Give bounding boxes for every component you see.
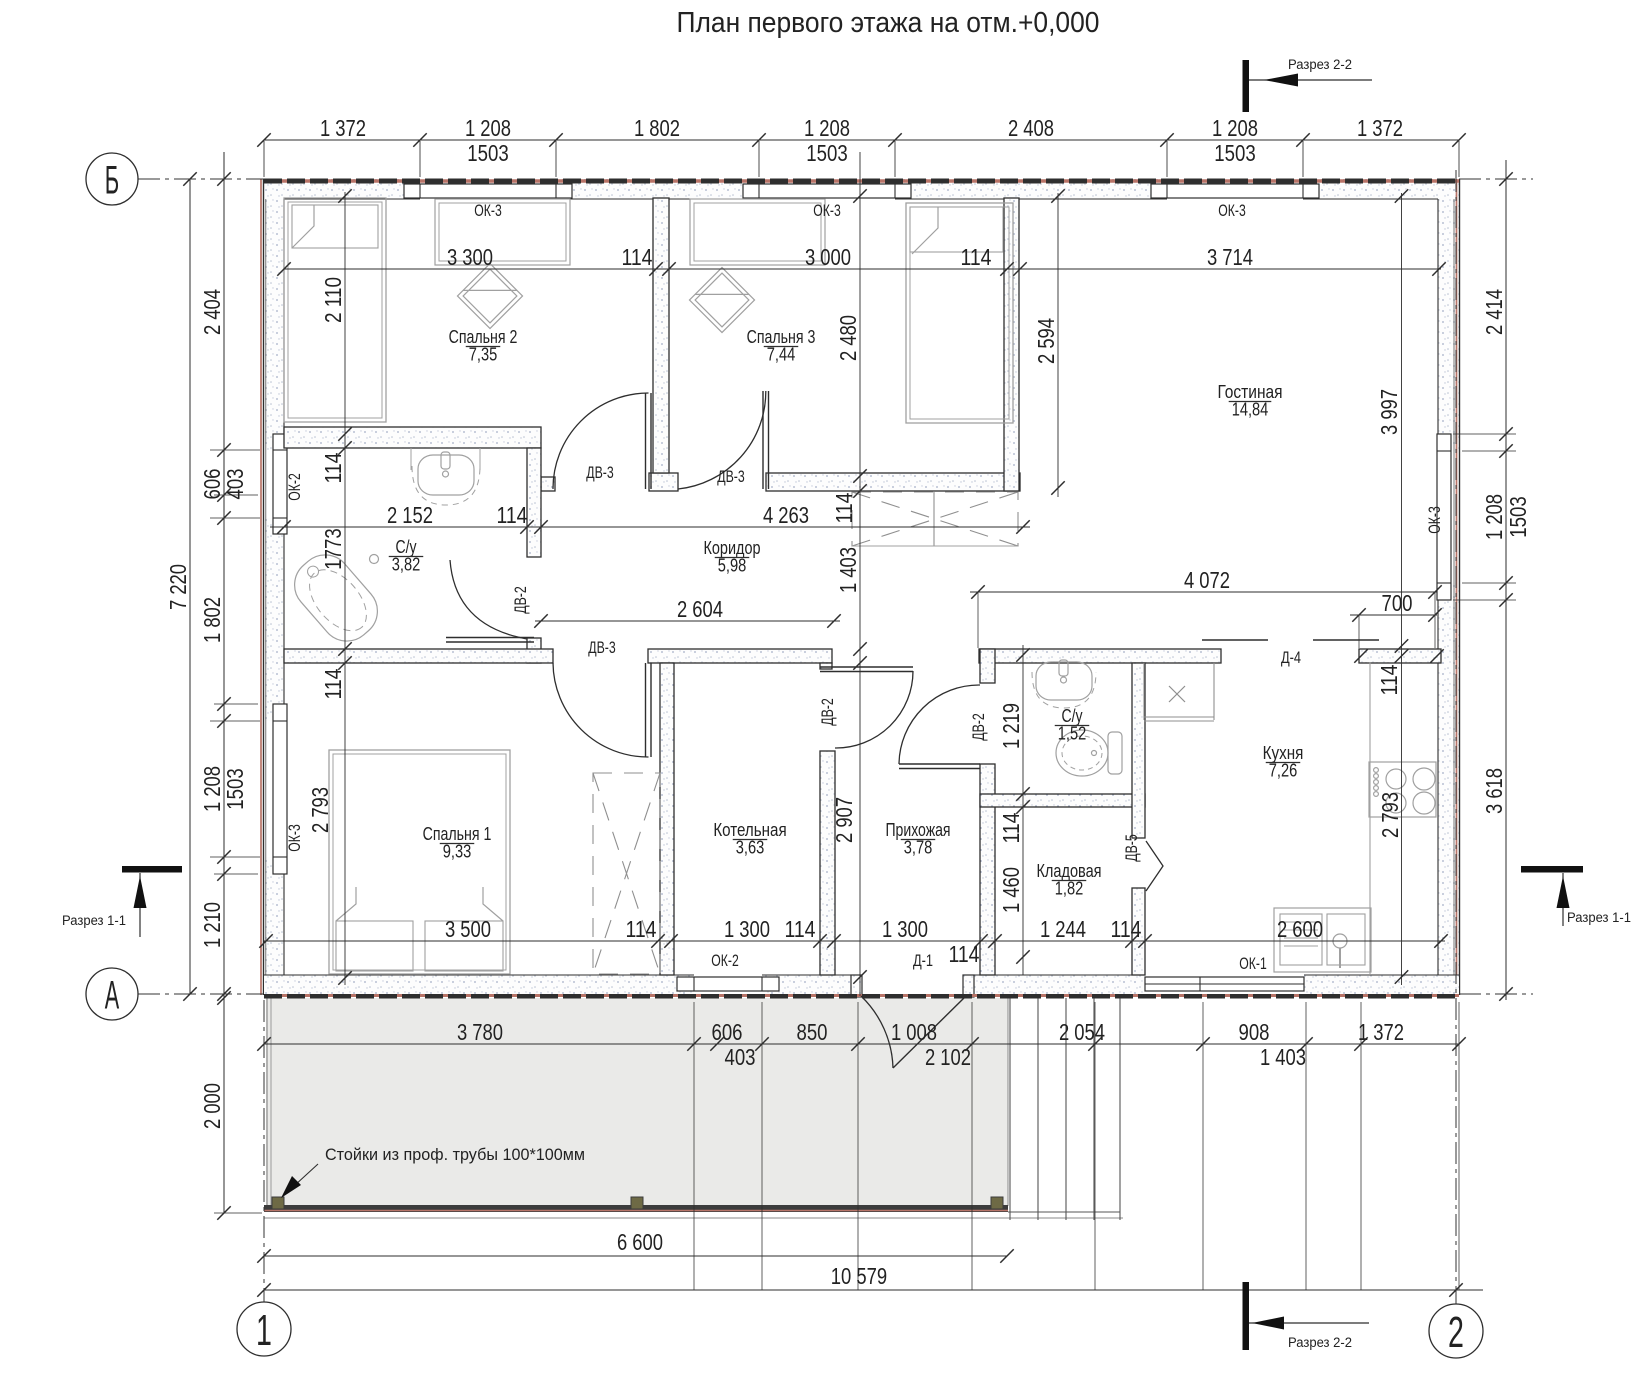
svg-text:1 403: 1 403 xyxy=(1260,1044,1306,1070)
svg-text:5,98: 5,98 xyxy=(718,555,747,576)
svg-text:3 618: 3 618 xyxy=(1481,768,1507,814)
svg-text:7,35: 7,35 xyxy=(469,344,498,365)
svg-text:2 414: 2 414 xyxy=(1481,289,1507,335)
svg-text:2 000: 2 000 xyxy=(199,1083,225,1129)
svg-text:ОК-3: ОК-3 xyxy=(474,201,502,220)
svg-text:4 263: 4 263 xyxy=(763,502,809,528)
svg-text:3 000: 3 000 xyxy=(805,244,851,270)
svg-text:7,26: 7,26 xyxy=(1269,760,1298,781)
svg-text:114: 114 xyxy=(626,916,657,942)
svg-text:ОК-3: ОК-3 xyxy=(813,201,841,220)
svg-text:План первого этажа на отм.+0,0: План первого этажа на отм.+0,000 xyxy=(677,7,1100,39)
svg-text:1 300: 1 300 xyxy=(882,916,928,942)
svg-text:1773: 1773 xyxy=(320,528,346,569)
svg-text:114: 114 xyxy=(1111,916,1142,942)
svg-text:1503: 1503 xyxy=(467,140,508,166)
svg-text:ОК-2: ОК-2 xyxy=(285,473,304,501)
svg-text:1503: 1503 xyxy=(806,140,847,166)
svg-text:2 604: 2 604 xyxy=(677,596,723,622)
svg-text:2 110: 2 110 xyxy=(320,277,346,323)
svg-text:6 600: 6 600 xyxy=(617,1229,663,1255)
svg-text:2 408: 2 408 xyxy=(1008,115,1054,141)
svg-text:Разрез 2-2: Разрез 2-2 xyxy=(1288,57,1352,72)
svg-text:2 594: 2 594 xyxy=(1033,318,1059,364)
svg-text:1 460: 1 460 xyxy=(998,867,1024,913)
svg-text:114: 114 xyxy=(831,493,857,524)
svg-text:2 907: 2 907 xyxy=(831,797,857,843)
svg-text:2 152: 2 152 xyxy=(387,502,433,528)
svg-text:1,82: 1,82 xyxy=(1055,878,1084,899)
svg-text:ДВ-5: ДВ-5 xyxy=(1122,834,1141,862)
svg-text:114: 114 xyxy=(785,916,816,942)
svg-text:7,44: 7,44 xyxy=(767,344,796,365)
svg-text:403: 403 xyxy=(222,469,248,500)
svg-text:1 300: 1 300 xyxy=(724,916,770,942)
svg-text:ДВ-2: ДВ-2 xyxy=(511,586,530,614)
svg-text:1 008: 1 008 xyxy=(891,1019,937,1045)
svg-text:ДВ-3: ДВ-3 xyxy=(717,467,745,486)
svg-text:3,63: 3,63 xyxy=(736,837,765,858)
svg-text:3 780: 3 780 xyxy=(457,1019,503,1045)
svg-text:1: 1 xyxy=(256,1306,272,1355)
svg-text:ОК-2: ОК-2 xyxy=(711,951,739,970)
svg-text:Д-1: Д-1 xyxy=(913,951,933,970)
svg-text:10 579: 10 579 xyxy=(831,1263,887,1289)
svg-text:1 208: 1 208 xyxy=(465,115,511,141)
svg-text:ОК-3: ОК-3 xyxy=(1218,201,1246,220)
svg-text:ДВ-3: ДВ-3 xyxy=(588,638,616,657)
svg-text:114: 114 xyxy=(998,813,1024,844)
svg-text:850: 850 xyxy=(797,1019,828,1045)
svg-text:9,33: 9,33 xyxy=(443,841,472,862)
svg-text:1 372: 1 372 xyxy=(1357,115,1403,141)
svg-text:2: 2 xyxy=(1448,1308,1464,1357)
svg-text:606: 606 xyxy=(712,1019,743,1045)
svg-text:403: 403 xyxy=(725,1044,756,1070)
svg-text:3 997: 3 997 xyxy=(1376,389,1402,435)
svg-text:Разрез 1-1: Разрез 1-1 xyxy=(62,913,126,928)
svg-text:1 403: 1 403 xyxy=(835,547,861,593)
svg-text:ОК-3: ОК-3 xyxy=(1425,506,1444,534)
svg-text:1 372: 1 372 xyxy=(1358,1019,1404,1045)
svg-text:114: 114 xyxy=(497,502,528,528)
svg-text:114: 114 xyxy=(961,244,992,270)
svg-text:ДВ-2: ДВ-2 xyxy=(818,698,837,726)
svg-text:1 244: 1 244 xyxy=(1040,916,1086,942)
svg-text:114: 114 xyxy=(622,244,653,270)
svg-text:Разрез 1-1: Разрез 1-1 xyxy=(1567,910,1631,925)
svg-text:Б: Б xyxy=(105,158,119,202)
svg-text:7 220: 7 220 xyxy=(165,564,191,610)
svg-text:3 500: 3 500 xyxy=(445,916,491,942)
svg-text:3,78: 3,78 xyxy=(904,837,933,858)
svg-text:114: 114 xyxy=(1376,665,1402,696)
svg-text:Д-4: Д-4 xyxy=(1281,648,1301,667)
svg-text:1 802: 1 802 xyxy=(199,597,225,643)
svg-text:14,84: 14,84 xyxy=(1232,399,1269,420)
svg-text:3 300: 3 300 xyxy=(447,244,493,270)
svg-text:ДВ-2: ДВ-2 xyxy=(969,713,988,741)
svg-text:3,82: 3,82 xyxy=(392,554,421,575)
svg-text:2 480: 2 480 xyxy=(835,315,861,361)
svg-text:ОК-1: ОК-1 xyxy=(1239,954,1267,973)
svg-text:114: 114 xyxy=(320,669,346,700)
svg-text:1 208: 1 208 xyxy=(1212,115,1258,141)
svg-text:1 208: 1 208 xyxy=(1481,494,1507,540)
svg-text:114: 114 xyxy=(320,453,346,484)
svg-text:1 372: 1 372 xyxy=(320,115,366,141)
svg-text:908: 908 xyxy=(1239,1019,1270,1045)
svg-text:2 054: 2 054 xyxy=(1059,1019,1105,1045)
svg-text:1,52: 1,52 xyxy=(1058,723,1087,744)
svg-text:1503: 1503 xyxy=(1214,140,1255,166)
svg-text:2 600: 2 600 xyxy=(1277,916,1323,942)
svg-text:2 793: 2 793 xyxy=(1377,792,1403,838)
svg-text:ДВ-3: ДВ-3 xyxy=(586,463,614,482)
svg-text:4 072: 4 072 xyxy=(1184,567,1230,593)
svg-text:114: 114 xyxy=(949,941,980,967)
svg-text:1503: 1503 xyxy=(1505,496,1531,537)
svg-text:2 102: 2 102 xyxy=(925,1044,971,1070)
svg-text:1 210: 1 210 xyxy=(199,902,225,948)
svg-text:Стойки из проф. трубы 100*100м: Стойки из проф. трубы 100*100мм xyxy=(325,1145,585,1164)
svg-text:Разрез 2-2: Разрез 2-2 xyxy=(1288,1335,1352,1350)
svg-text:700: 700 xyxy=(1382,590,1413,616)
svg-text:1 219: 1 219 xyxy=(998,703,1024,749)
svg-text:ОК-3: ОК-3 xyxy=(285,824,304,852)
svg-text:1503: 1503 xyxy=(222,768,248,809)
svg-text:А: А xyxy=(105,973,120,1017)
svg-text:2 793: 2 793 xyxy=(307,787,333,833)
svg-text:1 208: 1 208 xyxy=(804,115,850,141)
svg-text:3 714: 3 714 xyxy=(1207,244,1253,270)
svg-text:2 404: 2 404 xyxy=(199,289,225,335)
svg-text:1 802: 1 802 xyxy=(634,115,680,141)
